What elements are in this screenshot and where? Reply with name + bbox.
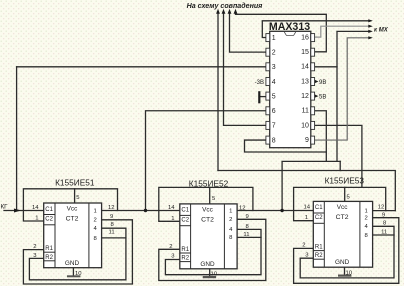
wire: MAX313 pin1 over-top to right arrow line1 xyxy=(262,21,370,38)
svg-text:2: 2 xyxy=(365,216,368,222)
wire: counter3 R1 loop to output 9 xyxy=(294,218,399,284)
wire: counter3 Vcc stub pin5 xyxy=(344,187,346,201)
wire: counter3 R2 loop to output 8 xyxy=(300,226,394,278)
svg-text:MAX313: MAX313 xyxy=(269,21,310,33)
svg-text:C1: C1 xyxy=(181,208,189,214)
up arrowhead 1 xyxy=(216,9,220,14)
wire: counter2 R2 loop to output 8 xyxy=(165,229,261,274)
svg-text:-3В: -3В xyxy=(255,80,264,86)
counter DD1 K155IE51 box xyxy=(44,203,102,268)
wire: MAX313 pin15 to top rail and up-arrow 4 xyxy=(236,12,327,52)
svg-text:12: 12 xyxy=(378,205,385,211)
svg-text:3: 3 xyxy=(272,64,276,71)
wire: counter1 GND stub pin10 xyxy=(72,268,74,276)
svg-text:CT2: CT2 xyxy=(201,216,214,223)
svg-text:12: 12 xyxy=(301,93,309,100)
ground bar counter1 pin10 xyxy=(67,275,80,277)
svg-text:5В: 5В xyxy=(319,94,326,100)
svg-text:10: 10 xyxy=(211,271,218,277)
junction A dot xyxy=(144,209,147,212)
wire: MAX313 pin11 right and down xyxy=(315,111,327,162)
wire: counter1 R1 loop to output 9 xyxy=(23,220,132,284)
wire: counter1 C2 feedback loop from output 12 xyxy=(23,189,117,221)
wire: MAX313 pin6 left and down to junction A xyxy=(146,111,267,211)
wire: MAX313 pin16 gray line to arrow line2 xyxy=(315,26,371,37)
svg-text:12: 12 xyxy=(239,205,246,211)
power wedge pin12 xyxy=(315,94,319,97)
svg-text:На схему совпадения: На схему совпадения xyxy=(187,2,264,10)
svg-text:9В: 9В xyxy=(319,80,326,86)
svg-text:Vcc: Vcc xyxy=(67,205,78,212)
wire: counter1 R2 loop to output 8 xyxy=(29,228,126,280)
power wedge pin13 xyxy=(315,80,319,83)
wire: KG vertical down to counter1 C1 junction xyxy=(16,67,18,211)
svg-text:4: 4 xyxy=(272,79,276,86)
svg-text:C2: C2 xyxy=(181,217,189,223)
junction B dot xyxy=(280,209,283,212)
wire: k MX line3 from vertical x337 to arrow xyxy=(337,31,371,161)
wire: counter3 GND stub pin10 xyxy=(344,267,346,275)
svg-text:10: 10 xyxy=(301,122,309,129)
svg-text:GND: GND xyxy=(335,259,350,266)
wire: counter1 row1 output to counter2 C1 xyxy=(102,210,180,212)
svg-text:11: 11 xyxy=(381,230,387,236)
right arrowhead line4 xyxy=(368,36,373,39)
svg-text:7: 7 xyxy=(272,123,276,130)
wire: KG input horizontal to counter1 C1 xyxy=(4,210,44,212)
wire: up-arrow line2 vertical to MAX pin7 xyxy=(224,12,267,125)
ground bar counter3 pin10 xyxy=(338,275,351,277)
svg-text:10: 10 xyxy=(75,271,82,277)
up arrowhead 2 xyxy=(222,9,226,14)
svg-text:к МХ: к МХ xyxy=(374,28,389,34)
svg-text:9: 9 xyxy=(246,214,249,220)
wire: counter2 GND stub pin10 xyxy=(209,269,211,277)
svg-text:16: 16 xyxy=(301,34,309,41)
svg-text:1: 1 xyxy=(171,216,174,222)
svg-text:2: 2 xyxy=(272,50,276,57)
MAX313 pin bumps left pins 1-8 xyxy=(266,34,270,42)
svg-text:14: 14 xyxy=(168,205,175,211)
ground bar counter2 pin10 xyxy=(203,276,216,278)
svg-text:14: 14 xyxy=(32,205,39,211)
right arrowhead line1 xyxy=(368,19,373,22)
wire: jog from rail B down to rail C xyxy=(339,161,341,170)
wire: counter2 R1 loop to output 9 xyxy=(159,219,266,280)
svg-text:C1: C1 xyxy=(45,207,53,213)
wire: counter1 output 11 join xyxy=(102,237,126,239)
wire: MAX313 pin5 to ground bar xyxy=(259,96,266,98)
wire: counter2 Vcc stub pin5 xyxy=(209,187,211,204)
svg-text:9: 9 xyxy=(382,213,385,219)
wire: counter2 row1 output to counter3 C1 xyxy=(237,210,313,212)
wire: MAX313 pin14 to vertical x337 xyxy=(315,66,338,68)
svg-text:2: 2 xyxy=(229,217,232,223)
wire: MAX313 pin9 gray line to arrow line4 xyxy=(315,38,371,140)
svg-text:C2: C2 xyxy=(45,217,53,223)
svg-text:11: 11 xyxy=(243,232,249,238)
svg-text:11: 11 xyxy=(109,230,115,236)
svg-text:2: 2 xyxy=(94,218,97,224)
svg-text:R2: R2 xyxy=(45,255,53,261)
svg-text:C1: C1 xyxy=(315,205,323,211)
wire: MAX313 pin3 to KG vertical xyxy=(17,66,266,68)
svg-text:1: 1 xyxy=(365,208,368,214)
svg-text:Vcc: Vcc xyxy=(337,204,348,211)
svg-text:К155ИЕ52: К155ИЕ52 xyxy=(189,179,229,189)
up arrowhead 3 xyxy=(228,9,232,14)
svg-text:R2: R2 xyxy=(315,253,323,259)
MAX313 pin bumps right pins 16-9 xyxy=(311,34,315,42)
svg-text:8: 8 xyxy=(272,137,276,144)
svg-text:11: 11 xyxy=(302,108,309,115)
svg-text:2: 2 xyxy=(302,243,305,249)
svg-text:14: 14 xyxy=(301,64,309,71)
svg-text:1: 1 xyxy=(272,35,276,42)
svg-text:1: 1 xyxy=(229,208,232,214)
right arrowhead line2 xyxy=(368,25,373,28)
right arrowhead line3 xyxy=(368,30,373,33)
counter DD3 K155IE53 box xyxy=(313,201,372,267)
svg-text:13: 13 xyxy=(301,78,309,85)
wire: long rail C to counter3 row1 xyxy=(218,171,395,211)
MAX313 top notch xyxy=(284,32,295,35)
wire: counter3 row1 output to staircase xyxy=(373,210,396,212)
wire: mid rail B with drop to junction B xyxy=(282,161,340,210)
svg-text:CT2: CT2 xyxy=(336,214,349,221)
svg-text:14: 14 xyxy=(303,205,310,211)
KG arrowhead xyxy=(14,209,21,213)
svg-text:GND: GND xyxy=(65,260,80,267)
svg-text:6: 6 xyxy=(272,108,276,115)
wire: counter2 C2 feedback loop from output 12 xyxy=(159,187,253,221)
wire: MAX313 pin10 down to counter3 feedback rail xyxy=(315,125,362,187)
wire: counter2 output 11 join xyxy=(237,236,261,238)
svg-text:К155ИЕ51: К155ИЕ51 xyxy=(55,178,95,188)
svg-text:CT2: CT2 xyxy=(66,215,79,222)
svg-text:R1: R1 xyxy=(181,247,189,253)
svg-text:C2: C2 xyxy=(315,215,323,221)
wire: counter1 Vcc stub pin5 xyxy=(74,189,76,203)
svg-text:2: 2 xyxy=(169,244,172,250)
svg-text:КГ: КГ xyxy=(1,203,9,210)
svg-text:15: 15 xyxy=(301,49,309,56)
svg-text:12: 12 xyxy=(108,205,115,211)
wire: MAX313 pin8 down-left and long right xyxy=(245,140,327,152)
svg-text:GND: GND xyxy=(200,261,215,268)
svg-text:9: 9 xyxy=(110,214,113,220)
counter DD2 K155IE52 box xyxy=(180,204,237,269)
svg-text:1: 1 xyxy=(94,208,97,214)
wire: counter3 output 11 join xyxy=(373,234,394,236)
svg-text:К155ИЕ53: К155ИЕ53 xyxy=(325,176,365,186)
wire: up-arrow line1 vertical down to cross rail xyxy=(217,12,219,171)
svg-text:1: 1 xyxy=(305,215,308,221)
svg-text:R1: R1 xyxy=(45,246,53,252)
ground bar at MAX313 pin5 xyxy=(258,91,260,103)
svg-text:R1: R1 xyxy=(315,244,323,250)
svg-text:R2: R2 xyxy=(181,256,189,262)
svg-text:1: 1 xyxy=(35,216,38,222)
wire: counter3 C2 feedback loop from output 12 xyxy=(294,187,386,220)
svg-text:2: 2 xyxy=(33,244,36,250)
svg-text:10: 10 xyxy=(346,271,353,277)
up arrowhead 4 xyxy=(234,9,238,14)
wire: up-arrow line3 vertical to MAX pin2 xyxy=(230,12,267,52)
svg-text:5: 5 xyxy=(272,93,276,100)
svg-text:Vcc: Vcc xyxy=(202,206,213,213)
svg-text:9: 9 xyxy=(305,137,309,144)
analog switch DA1 MAX313 body xyxy=(270,31,311,147)
